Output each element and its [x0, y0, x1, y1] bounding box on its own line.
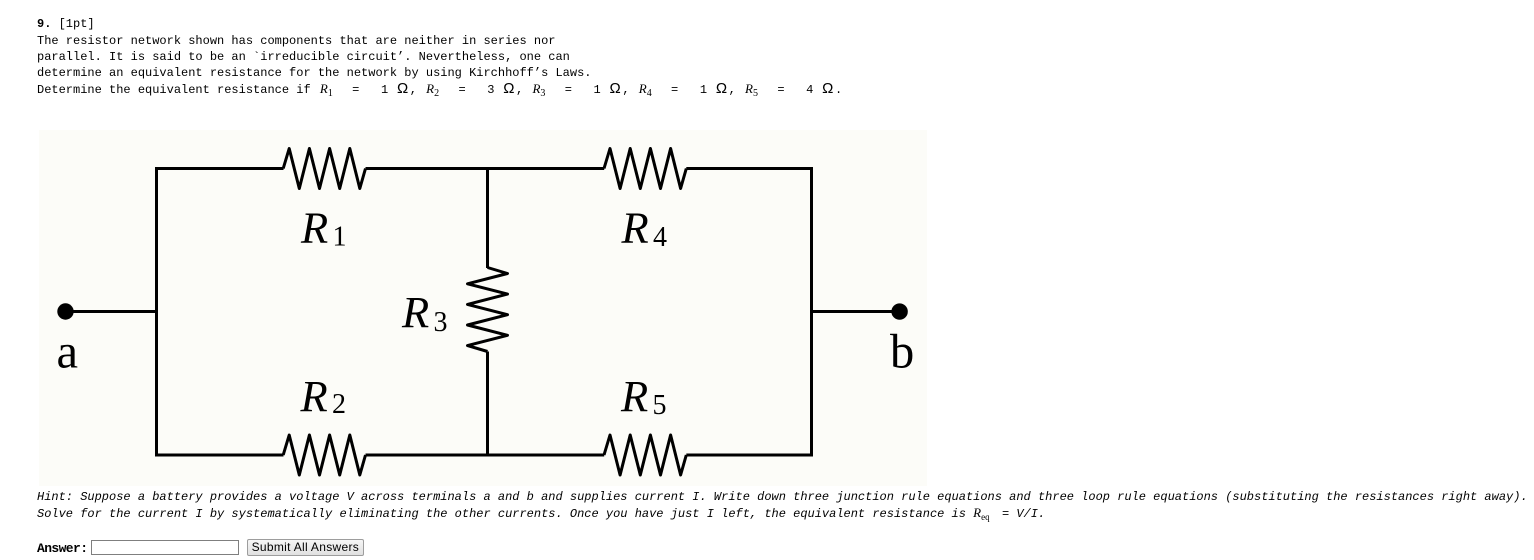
- terminal b dot: [891, 303, 907, 319]
- svg-text:1: 1: [333, 222, 347, 253]
- answer input box: [91, 540, 239, 555]
- svg-text:b: b: [890, 326, 914, 379]
- wire: right rail to terminal b: [810, 310, 894, 313]
- circuit schematic: [39, 130, 927, 486]
- resistor R3 zigzag: [468, 268, 508, 352]
- svg-text:R: R: [620, 371, 648, 421]
- svg-text:R: R: [300, 203, 328, 253]
- middle rail bottom segment: [486, 352, 489, 457]
- svg-text:R: R: [300, 371, 328, 421]
- problem statement text: [37, 16, 95, 32]
- bottom wire right segment: [686, 454, 813, 457]
- bottom wire middle segment: [366, 454, 605, 457]
- svg-text:4: 4: [653, 222, 667, 253]
- top wire left segment: [155, 167, 284, 170]
- middle rail top segment: [486, 167, 489, 268]
- wire: terminal a to left rail: [66, 310, 159, 313]
- answer label: [37, 541, 87, 557]
- svg-text:a: a: [57, 326, 79, 379]
- svg-text:2: 2: [332, 389, 346, 420]
- resistor R1 zigzag: [283, 149, 365, 189]
- svg-text:5: 5: [653, 390, 667, 421]
- right rail: [810, 167, 813, 457]
- terminal a dot: [57, 303, 73, 319]
- svg-text:R: R: [621, 203, 649, 253]
- resistor R4 zigzag: [604, 149, 686, 189]
- resistor R2 zigzag: [283, 435, 365, 475]
- svg-text:R: R: [401, 287, 429, 337]
- hint text: [37, 489, 1528, 522]
- submit button: [247, 539, 365, 556]
- top wire right segment: [686, 167, 813, 170]
- top wire middle segment: [366, 167, 605, 170]
- svg-text:3: 3: [434, 307, 448, 338]
- resistor R5 zigzag: [604, 435, 686, 475]
- schematic background: [39, 130, 927, 486]
- left rail: [155, 167, 158, 457]
- bottom wire left segment: [155, 454, 284, 457]
